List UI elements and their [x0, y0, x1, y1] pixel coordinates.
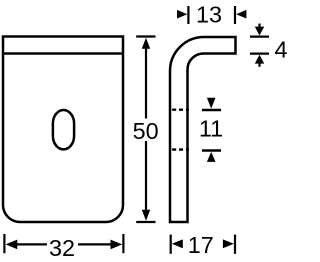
dimension 50 bottom tick	[136, 221, 155, 223]
dimension 32 label	[49, 235, 75, 261]
front view plate outline	[3, 37, 123, 223]
dimension 17 left arrow	[172, 239, 183, 248]
dimension 4 top tick	[250, 35, 269, 37]
side view bent profile	[170, 37, 236, 222]
dimension 4 label	[274, 36, 287, 62]
dimension 13 left tick	[187, 6, 189, 24]
dimension 4 top arrow	[255, 24, 264, 36]
dimension 50 bottom arrow	[142, 210, 150, 221]
dimension 13 right tick	[234, 6, 236, 24]
dimension 13 label	[196, 2, 222, 28]
dimension 17 left tick	[170, 235, 172, 254]
dimension 13 right arrow	[236, 10, 246, 19]
hidden line upper (hole top)	[172, 108, 189, 110]
dimension 17 right arrow	[223, 239, 234, 248]
dimension 32 right tick	[122, 234, 124, 253]
dimension 50 top tick	[136, 35, 155, 37]
dimension 17 label	[188, 232, 214, 258]
dimension 50 top arrow	[142, 38, 150, 49]
dimension 4 bottom arrow	[255, 55, 264, 67]
svg-text:13: 13	[196, 2, 222, 28]
slot hole	[53, 110, 74, 149]
dimension 11 bottom tick	[202, 149, 221, 151]
dimension 32 left arrow	[6, 240, 18, 250]
dimension 11 bottom arrow	[207, 152, 216, 162]
bend line	[3, 52, 123, 55]
dimension 17 right tick	[234, 235, 236, 254]
svg-text:50: 50	[133, 118, 159, 144]
dimension 50 line	[145, 48, 147, 211]
dimension 32 right arrow	[111, 240, 123, 250]
dimension 50 label	[133, 118, 159, 144]
dimension 11 label	[199, 116, 223, 142]
svg-text:4: 4	[274, 36, 287, 62]
hidden line lower (hole bottom)	[172, 148, 189, 150]
dimension 11 top tick	[202, 109, 221, 111]
dimension 13 left arrow	[177, 10, 187, 19]
dimension 32 left tick	[3, 234, 5, 253]
dimension 11 top arrow	[207, 98, 216, 109]
svg-text:32: 32	[49, 235, 75, 261]
dimension 32 line	[15, 243, 113, 245]
svg-text:11: 11	[199, 116, 223, 142]
svg-text:17: 17	[188, 232, 214, 258]
dimension 4 bottom tick	[250, 52, 269, 54]
